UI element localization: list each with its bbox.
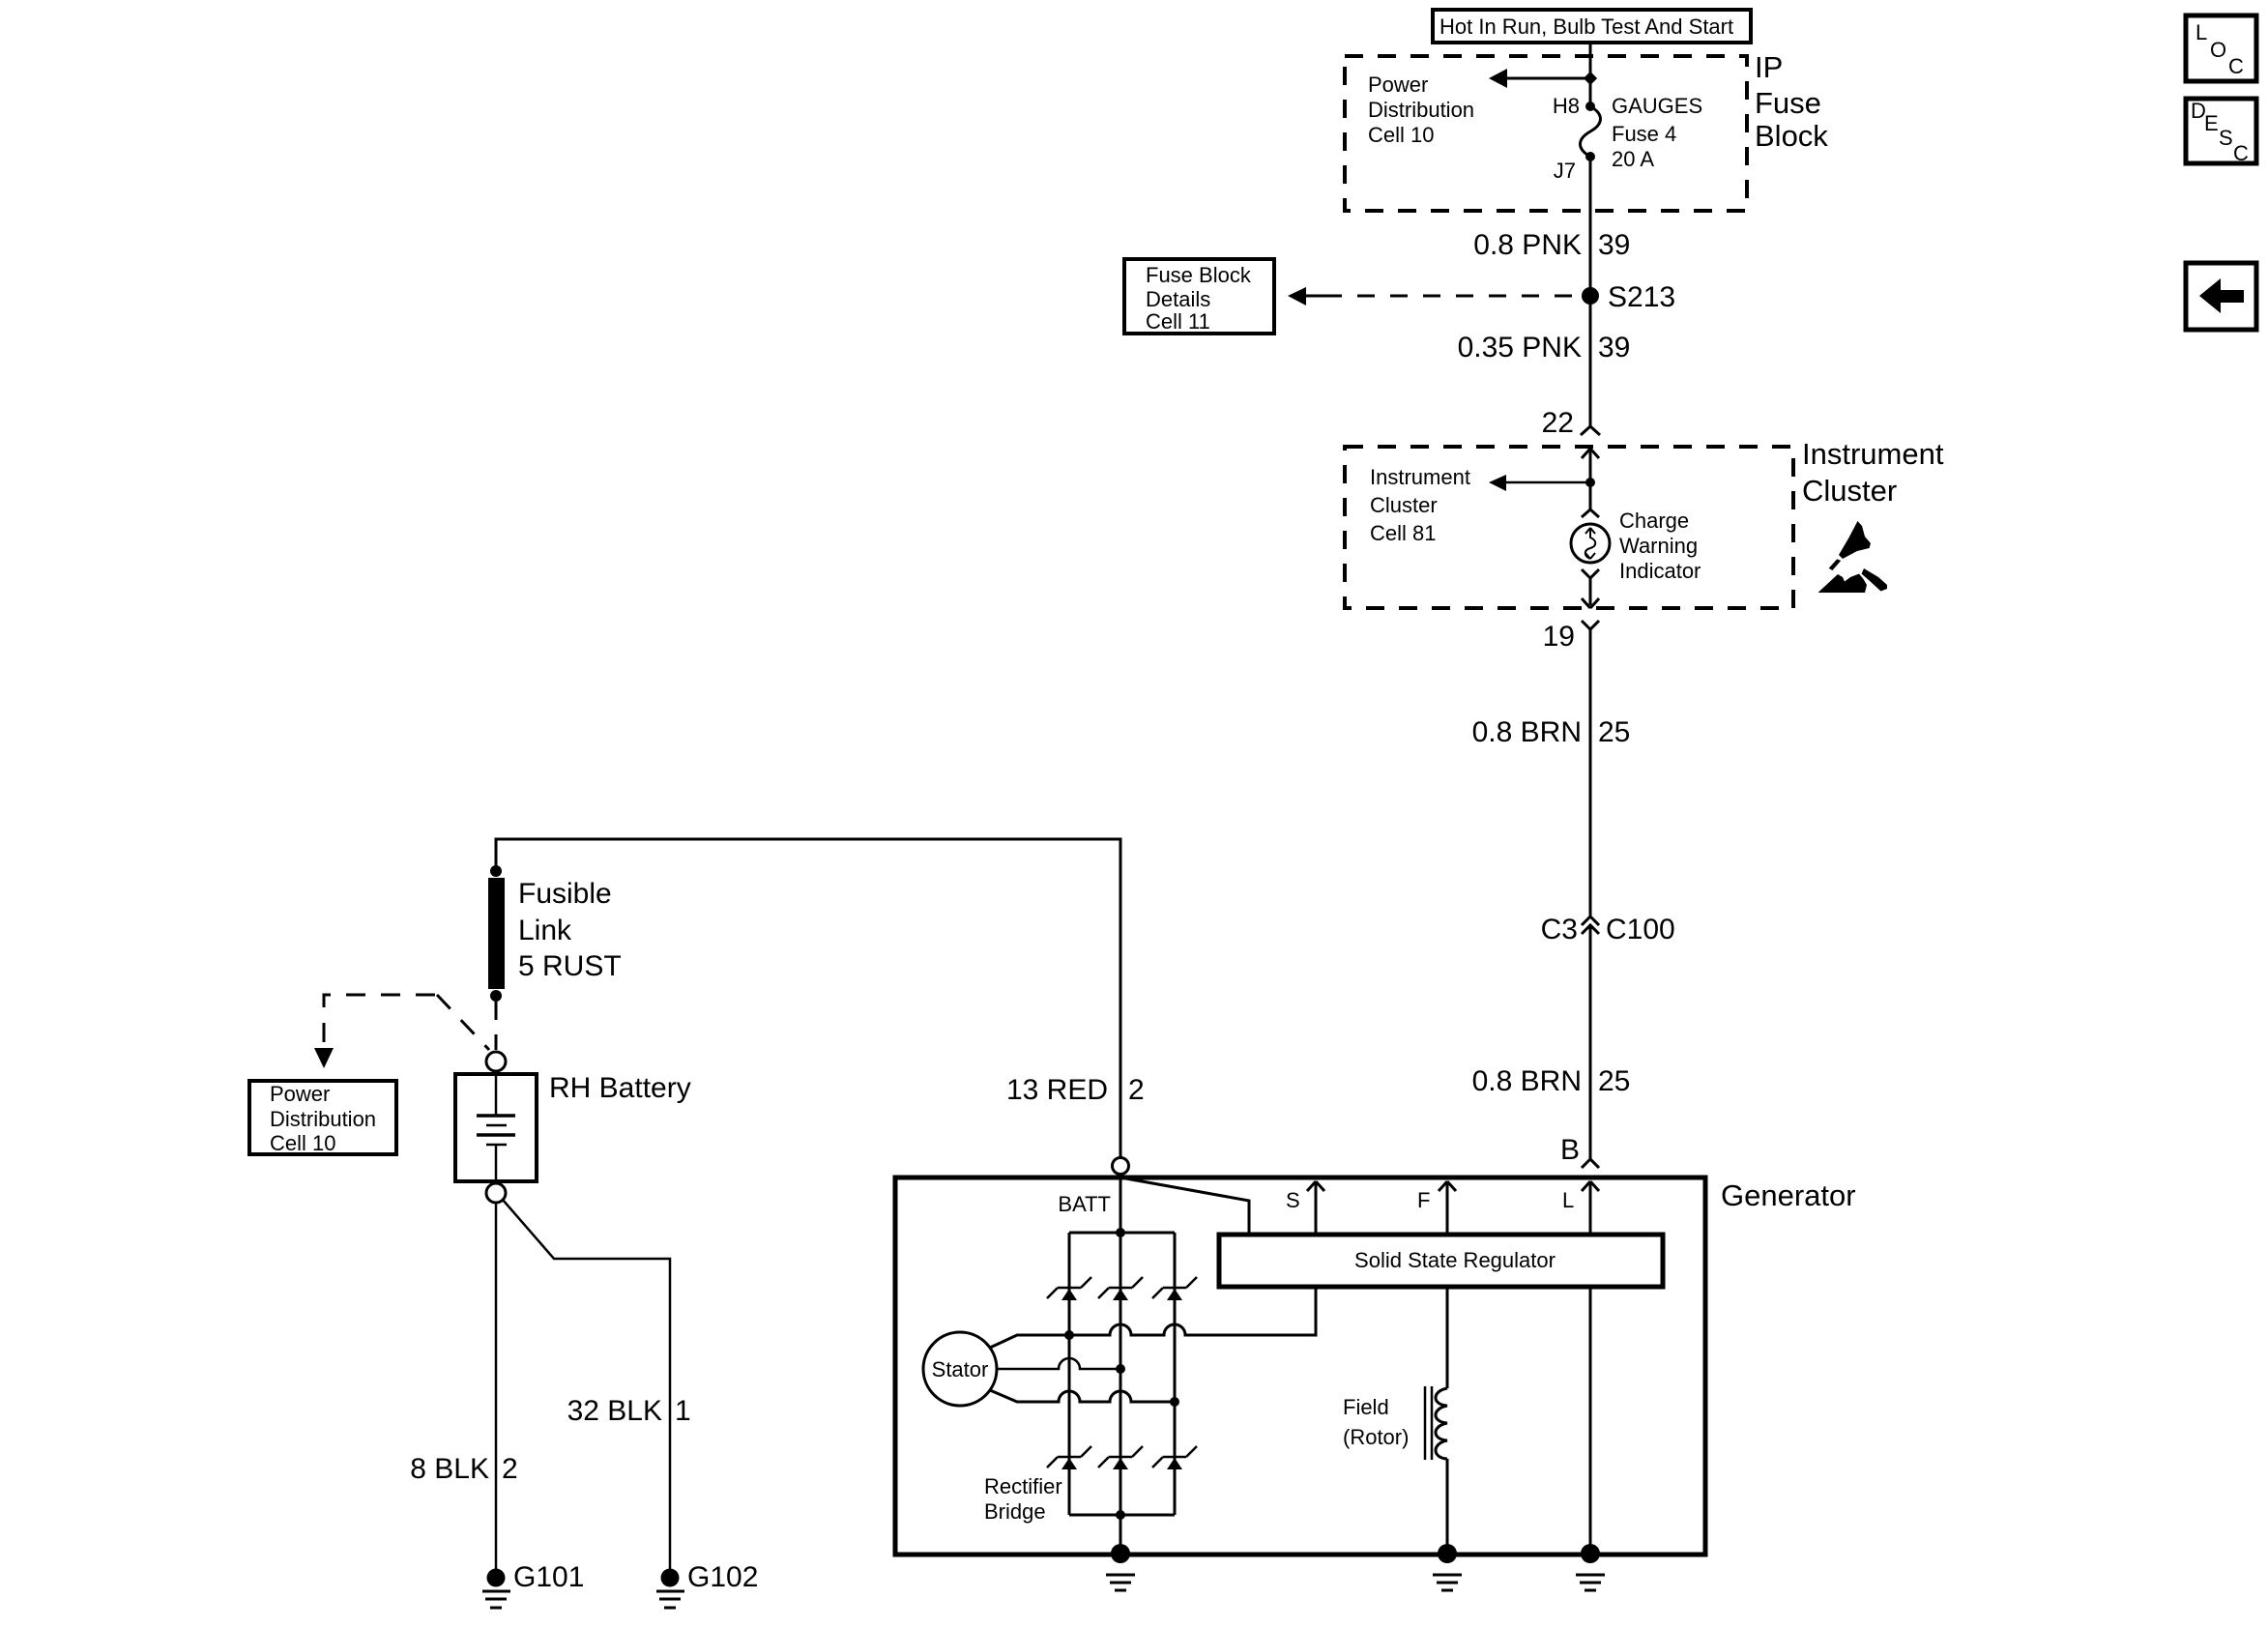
diode D2	[1098, 1277, 1143, 1300]
svg-text:32 BLK: 32 BLK	[567, 1395, 662, 1427]
DESC box	[2186, 99, 2256, 165]
svg-text:13 RED: 13 RED	[1006, 1074, 1108, 1106]
stator	[923, 1332, 997, 1406]
BATT terminal circle	[1113, 1158, 1129, 1175]
svg-text:Cell 11: Cell 11	[1146, 309, 1210, 334]
svg-text:Bridge: Bridge	[984, 1499, 1046, 1524]
diode D4	[1047, 1446, 1091, 1469]
svg-text:BATT: BATT	[1058, 1192, 1111, 1216]
svg-text:8 BLK: 8 BLK	[410, 1453, 489, 1485]
Fuse Block Details box	[1124, 259, 1274, 334]
svg-text:C: C	[2233, 141, 2249, 165]
svg-text:Field: Field	[1343, 1395, 1389, 1419]
IP Fuse Block dashed box	[1345, 56, 1747, 211]
svg-text:GAUGES: GAUGES	[1612, 94, 1702, 118]
wire arrow entering cluster	[1582, 449, 1599, 482]
svg-text:Indicator: Indicator	[1619, 559, 1701, 583]
svg-text:H8: H8	[1553, 94, 1580, 118]
svg-text:Fuse Block: Fuse Block	[1146, 263, 1252, 287]
wire battery to G101	[495, 1203, 498, 1570]
dashed arrow to Fuse Block Details	[1288, 287, 1583, 305]
svg-text:F: F	[1417, 1188, 1430, 1212]
fuse F4 GAUGES 20A	[1581, 102, 1601, 161]
rectifier bridge frame	[1069, 1228, 1175, 1520]
splice S213	[1582, 287, 1599, 305]
svg-text:S: S	[1286, 1188, 1300, 1212]
svg-text:Hot In Run, Bulb Test And Star: Hot In Run, Bulb Test And Start	[1439, 15, 1733, 39]
svg-text:0.8 BRN: 0.8 BRN	[1472, 716, 1582, 748]
ESD sensitive symbol	[1818, 521, 1887, 593]
svg-text:Rectifier: Rectifier	[984, 1474, 1062, 1498]
svg-text:Cell 81: Cell 81	[1370, 521, 1436, 545]
wire L to ground	[1589, 1287, 1592, 1553]
stator phase A wire	[990, 1287, 1316, 1348]
svg-text:39: 39	[1598, 229, 1630, 261]
ground at L	[1576, 1544, 1605, 1590]
svg-text:Cell 10: Cell 10	[1368, 123, 1434, 147]
svg-text:O: O	[2210, 38, 2226, 62]
svg-text:0.8 BRN: 0.8 BRN	[1472, 1065, 1582, 1097]
svg-text:Stator: Stator	[932, 1357, 989, 1381]
svg-text:39: 39	[1598, 332, 1630, 363]
generator box	[895, 1177, 1705, 1555]
svg-text:Charge: Charge	[1619, 509, 1689, 533]
junction dot	[1585, 478, 1595, 487]
svg-text:Cell 10: Cell 10	[270, 1131, 335, 1155]
svg-text:25: 25	[1598, 1065, 1630, 1097]
battery RH Battery	[455, 1074, 537, 1181]
label box "Hot In Run, Bulb Test And Start"	[1433, 10, 1751, 43]
svg-text:C: C	[2228, 54, 2244, 78]
wire BATT to regulator	[1120, 1177, 1249, 1235]
fusible link	[488, 865, 505, 1002]
svg-text:19: 19	[1543, 621, 1575, 653]
svg-text:Fuse: Fuse	[1755, 86, 1821, 120]
connector chevron above lamp	[1582, 509, 1599, 517]
cluster internal arrow	[1489, 475, 1590, 491]
back-arrow box	[2186, 263, 2256, 330]
svg-text:Warning: Warning	[1619, 534, 1698, 558]
svg-text:C3: C3	[1541, 914, 1578, 945]
stator phase B wire	[997, 1358, 1120, 1369]
svg-text:25: 25	[1598, 716, 1630, 748]
battery bottom terminal	[486, 1183, 506, 1203]
connector chevron below lamp	[1582, 569, 1599, 578]
ground G101	[482, 1561, 584, 1608]
ground at field	[1433, 1544, 1462, 1590]
svg-text:0.8 PNK: 0.8 PNK	[1473, 229, 1582, 261]
power distribution branch arrow	[1489, 69, 1597, 88]
diode D6	[1152, 1446, 1197, 1469]
svg-text:IP: IP	[1755, 50, 1783, 84]
wire BATT into bridge	[1119, 1174, 1122, 1233]
Instrument Cluster dashed box	[1345, 447, 1793, 608]
wire battery to G102	[503, 1200, 670, 1570]
svg-text:5 RUST: 5 RUST	[518, 950, 622, 982]
wire bridge to ground	[1119, 1515, 1122, 1553]
svg-text:Distribution: Distribution	[270, 1107, 376, 1131]
svg-text:2: 2	[502, 1453, 518, 1485]
svg-text:Power: Power	[1368, 73, 1428, 97]
svg-text:Fusible: Fusible	[518, 878, 612, 910]
wire from Hot box to fuse H8	[1589, 43, 1592, 106]
field rotor coil	[1425, 1287, 1447, 1553]
dashed arrow to Power Distribution	[314, 995, 489, 1068]
svg-text:(Rotor): (Rotor)	[1343, 1425, 1409, 1449]
Solid State Regulator box	[1219, 1235, 1663, 1287]
ground G102	[656, 1561, 758, 1608]
svg-text:Cluster: Cluster	[1802, 474, 1897, 508]
svg-text:Instrument: Instrument	[1370, 465, 1470, 489]
svg-text:Details: Details	[1146, 287, 1210, 311]
connector C3 C100	[1582, 916, 1599, 934]
svg-text:Distribution: Distribution	[1368, 98, 1474, 122]
svg-text:Cluster: Cluster	[1370, 493, 1438, 517]
svg-text:J7: J7	[1554, 159, 1576, 183]
svg-text:Block: Block	[1755, 119, 1828, 153]
diode D1	[1047, 1277, 1091, 1300]
terminal S arrow	[1307, 1181, 1324, 1235]
svg-text:Power: Power	[270, 1082, 330, 1106]
svg-text:2: 2	[1128, 1074, 1145, 1106]
svg-text:Solid State Regulator: Solid State Regulator	[1354, 1248, 1556, 1272]
terminal F arrow	[1439, 1181, 1456, 1235]
wire to lamp	[1589, 482, 1592, 509]
svg-text:Link: Link	[518, 915, 572, 946]
svg-text:Fuse 4: Fuse 4	[1612, 122, 1676, 146]
svg-text:E: E	[2204, 111, 2219, 135]
svg-text:L: L	[2195, 20, 2207, 44]
svg-text:Generator: Generator	[1721, 1178, 1856, 1212]
Power Distribution box	[249, 1081, 396, 1155]
svg-text:B: B	[1560, 1134, 1580, 1166]
svg-text:22: 22	[1542, 407, 1574, 439]
LOC box	[2186, 15, 2256, 81]
diode D3	[1152, 1277, 1197, 1300]
terminal L arrow	[1582, 1181, 1599, 1235]
svg-text:0.35 PNK: 0.35 PNK	[1458, 332, 1582, 363]
svg-text:S213: S213	[1608, 281, 1675, 313]
svg-text:G102: G102	[687, 1561, 758, 1593]
svg-text:20 A: 20 A	[1612, 147, 1654, 171]
svg-text:RH Battery: RH Battery	[549, 1072, 691, 1104]
dashed wire fusible link to battery	[495, 1002, 498, 1050]
svg-text:1: 1	[675, 1395, 691, 1427]
stator phase C wire	[990, 1390, 1175, 1402]
wire 19 to C3	[1589, 629, 1592, 916]
svg-text:C100: C100	[1606, 914, 1675, 945]
wire top horizontal run	[496, 839, 1120, 1158]
svg-text:S: S	[2219, 126, 2233, 150]
diode D5	[1098, 1446, 1143, 1469]
svg-text:Instrument: Instrument	[1802, 437, 1944, 471]
wire J7 to S213	[1589, 157, 1592, 426]
wire C100 to B	[1589, 926, 1592, 1159]
ground at bridge	[1106, 1544, 1135, 1590]
svg-text:L: L	[1562, 1188, 1574, 1212]
svg-text:G101: G101	[513, 1561, 584, 1593]
wire leaving lamp with down arrow	[1582, 578, 1599, 608]
battery top terminal	[486, 1052, 506, 1071]
charge warning indicator lamp	[1571, 524, 1610, 563]
